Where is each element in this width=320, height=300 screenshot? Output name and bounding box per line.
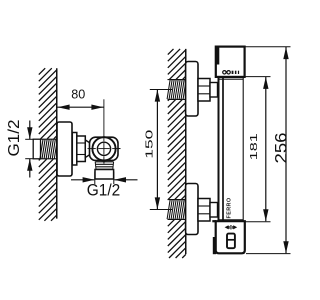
svg-text:181: 181 xyxy=(248,133,260,160)
svg-text:256: 256 xyxy=(272,133,291,164)
svg-text:150: 150 xyxy=(144,129,156,158)
svg-text:80: 80 xyxy=(71,87,85,102)
svg-text:FERRO: FERRO xyxy=(226,197,232,218)
svg-text:G1/2: G1/2 xyxy=(6,119,23,156)
svg-text:G1/2: G1/2 xyxy=(87,182,121,200)
